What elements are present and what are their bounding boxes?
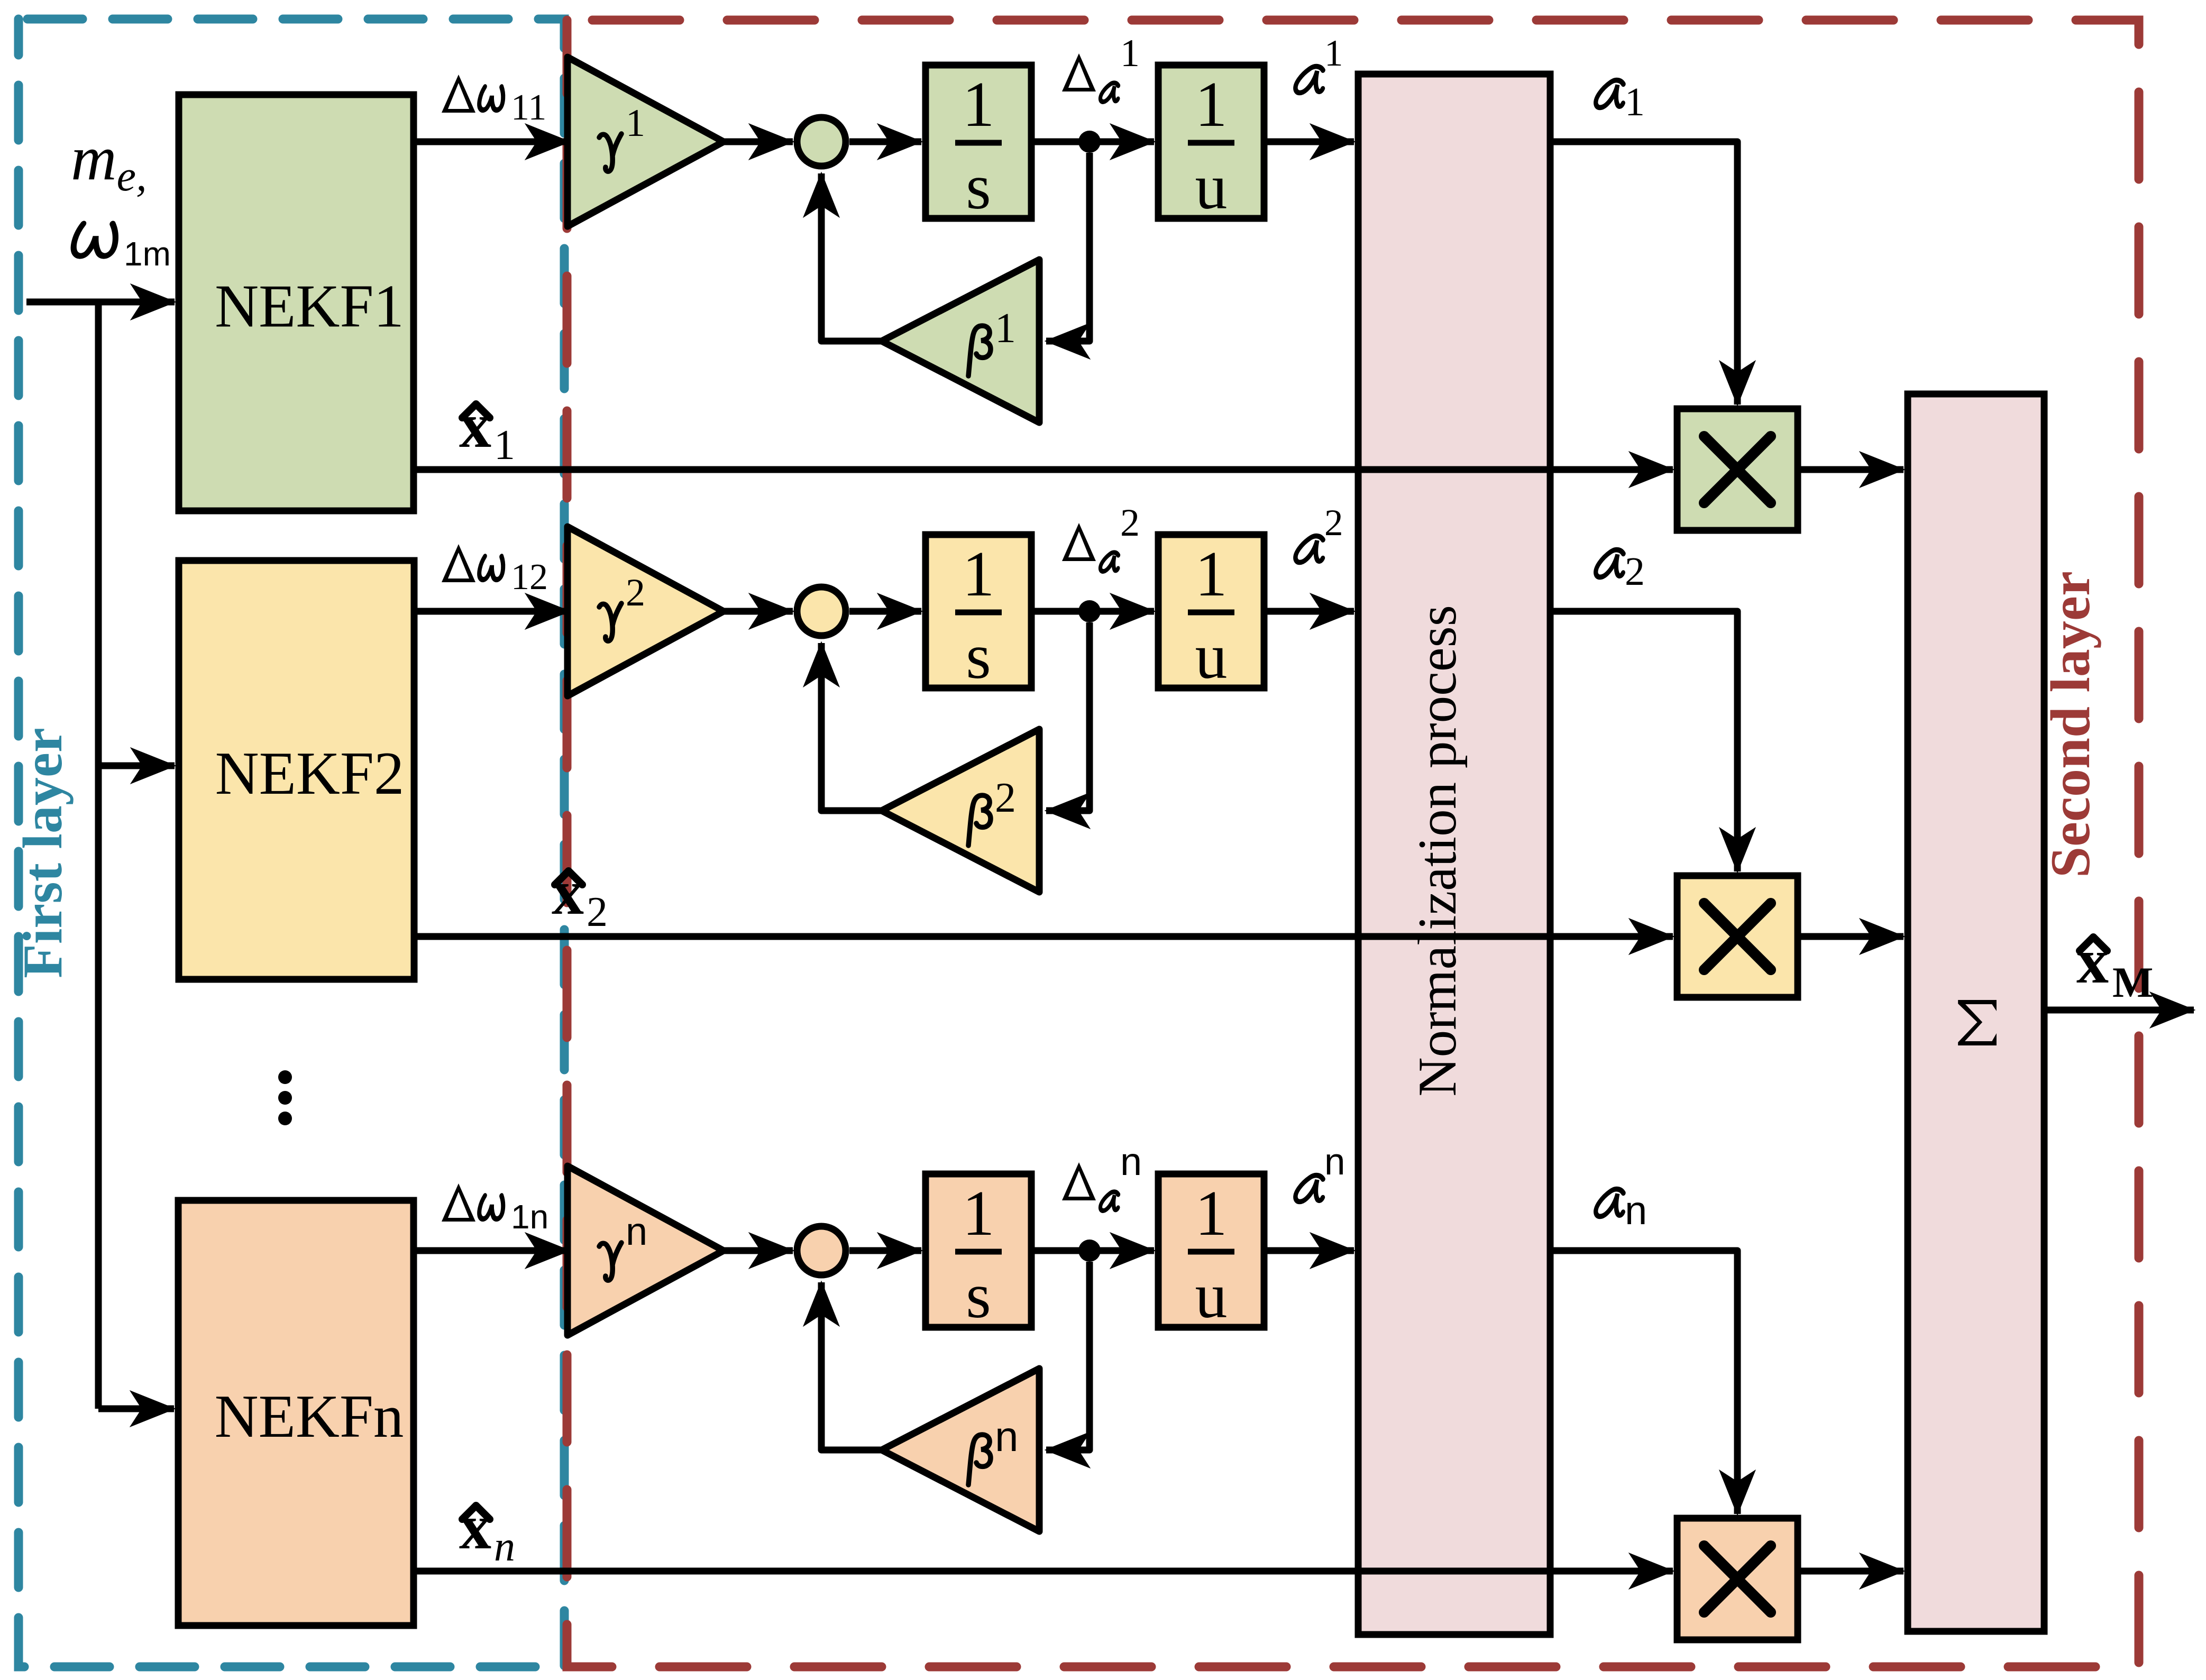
wire gamma to summing node	[724, 139, 793, 145]
svg-text:1: 1	[1195, 538, 1228, 610]
wire Sigma output xM	[2044, 1007, 2194, 1014]
multiplier block 1	[1677, 409, 1798, 530]
wire integrator to 1/u	[1031, 139, 1154, 145]
svg-text:1: 1	[963, 1178, 995, 1249]
svg-text:n: n	[1324, 1141, 1345, 1183]
svg-text:1: 1	[963, 538, 995, 610]
wire integrator to 1/u	[1031, 608, 1154, 615]
wire alpha_2 from Normalization to multiplier 2	[1550, 611, 1737, 871]
svg-text:1: 1	[1625, 80, 1645, 124]
wire input bus vertical	[95, 302, 102, 1409]
integrator block 1/s row 1	[926, 65, 1031, 218]
wire alpha_n from Normalization to multiplier n	[1550, 1251, 1737, 1514]
wire Delta-omega 12 from NEKF2 to gamma gain	[414, 608, 569, 615]
svg-text:1n: 1n	[511, 1198, 548, 1236]
NEKF2 block	[179, 561, 414, 979]
wire 1/u to Normalization	[1264, 1247, 1354, 1254]
svg-text:2: 2	[626, 571, 645, 614]
normalizer gain block 1/u row 1	[1158, 65, 1264, 218]
multiplier block 2	[1677, 876, 1798, 997]
gain triangle gamma 2	[567, 527, 724, 696]
label Delta alpha sup 2	[1062, 523, 1096, 561]
svg-text:2: 2	[1625, 549, 1645, 594]
vertical ellipsis dots	[278, 1070, 292, 1084]
label Delta omega 12	[442, 544, 475, 582]
feedback wire junction to beta 1	[1046, 153, 1090, 341]
svg-text:Second layer: Second layer	[2039, 571, 2101, 878]
svg-text:n: n	[1120, 1140, 1142, 1183]
label alpha sup n	[1295, 1176, 1325, 1202]
gain triangle gamma n	[567, 1166, 724, 1335]
svg-text:n: n	[1625, 1188, 1647, 1233]
label Delta omega 1n	[442, 1183, 475, 1222]
feedback wire beta 2 to summing node	[821, 643, 882, 811]
label Delta alpha sup n	[1062, 1162, 1096, 1200]
Second layer dashed border (red)	[567, 20, 2139, 1667]
junction dot Delta-alpha 2	[1078, 600, 1101, 622]
wire xhat 2 from NEKF2 to multiplier	[414, 933, 1673, 940]
svg-text:1: 1	[995, 305, 1016, 352]
svg-text:1: 1	[963, 69, 995, 140]
svg-text:s: s	[966, 1260, 991, 1332]
wire alpha_1 from Normalization to multiplier 1	[1550, 142, 1737, 405]
svg-text:1: 1	[1324, 33, 1343, 74]
wire xhat 1 from NEKF1 to multiplier	[414, 466, 1673, 473]
summing node circle 2	[797, 587, 846, 636]
svg-text:1: 1	[1195, 69, 1228, 140]
wire 1/u to Normalization	[1264, 608, 1354, 615]
wire xhat n from NEKFn to multiplier	[414, 1568, 1673, 1575]
gain triangle gamma 1	[567, 57, 724, 226]
feedback gain triangle beta 2	[882, 729, 1039, 892]
wire summing node to integrator	[849, 139, 921, 145]
NEKF1 block	[179, 95, 414, 511]
multiplier block n	[1677, 1518, 1798, 1640]
label Delta omega 11	[442, 75, 475, 113]
feedback wire beta n to summing node	[821, 1282, 882, 1450]
svg-text:n: n	[995, 1413, 1019, 1460]
First layer dashed border (teal)	[19, 19, 564, 1667]
label alpha sup 1	[1295, 67, 1325, 93]
wire input to NEKFn	[98, 1406, 174, 1412]
label Delta alpha sup 1	[1062, 53, 1096, 91]
node omega-1m input label	[72, 224, 118, 256]
junction dot Delta-alpha 1	[1078, 131, 1101, 153]
normalizer gain block 1/u row 2	[1158, 535, 1264, 688]
integrator block 1/s row 2	[926, 535, 1031, 688]
wire gamma to summing node	[724, 608, 793, 615]
svg-text:1: 1	[1195, 1178, 1228, 1249]
label alpha_n	[1595, 1189, 1625, 1217]
wire multiplier 2 to Sigma	[1798, 933, 1903, 940]
svg-text:n: n	[494, 1523, 515, 1570]
feedback wire beta 1 to summing node	[821, 173, 882, 341]
junction dot Delta-alpha n	[1078, 1240, 1101, 1262]
svg-text:u: u	[1195, 1260, 1228, 1332]
svg-text:2: 2	[1324, 502, 1343, 544]
label alpha_2	[1595, 550, 1625, 577]
svg-text:n: n	[626, 1209, 647, 1253]
wire multiplier n to Sigma	[1798, 1568, 1903, 1575]
label alpha_1	[1595, 80, 1625, 108]
svg-text:s: s	[966, 151, 991, 223]
svg-text:2: 2	[1120, 501, 1140, 545]
svg-text:s: s	[966, 621, 991, 692]
svg-text:First layer: First layer	[12, 728, 74, 978]
svg-text:2: 2	[995, 775, 1016, 821]
wire integrator to 1/u	[1031, 1247, 1154, 1254]
svg-text:NEKF2: NEKF2	[215, 740, 405, 807]
wire multiplier 1 to Sigma	[1798, 466, 1903, 473]
wire input to NEKF2	[98, 763, 175, 769]
svg-text:1: 1	[1120, 32, 1140, 75]
integrator block 1/s row n	[926, 1174, 1031, 1327]
wire input to NEKF1	[26, 299, 175, 306]
normalizer gain block 1/u row n	[1158, 1174, 1264, 1327]
NEKFn block	[178, 1200, 414, 1626]
svg-text:11: 11	[511, 87, 546, 128]
svg-text:u: u	[1195, 151, 1228, 223]
wire gamma to summing node	[724, 1247, 793, 1254]
svg-text:1m: 1m	[124, 235, 171, 273]
svg-text:1: 1	[494, 422, 515, 469]
feedback wire junction to beta n	[1046, 1262, 1090, 1450]
svg-text:Normalization process: Normalization process	[1407, 605, 1468, 1097]
feedback gain triangle beta 1	[882, 260, 1039, 423]
svg-text:M: M	[2112, 958, 2153, 1006]
feedback wire junction to beta 2	[1046, 622, 1090, 811]
feedback gain triangle beta n	[882, 1369, 1039, 1531]
wire Delta-omega 1n from NEKFn to gamma gain	[414, 1247, 569, 1254]
svg-text:12: 12	[511, 557, 548, 598]
summation Sigma block	[1908, 394, 2044, 1631]
svg-text:2: 2	[587, 889, 608, 935]
svg-text:1: 1	[626, 102, 645, 145]
svg-text:u: u	[1195, 621, 1228, 692]
svg-text:NEKF1: NEKF1	[215, 273, 404, 340]
Sigma label	[1958, 1000, 1997, 1045]
wire 1/u to Normalization	[1264, 139, 1354, 145]
wire summing node to integrator	[849, 608, 921, 615]
svg-text:NEKFn: NEKFn	[215, 1383, 404, 1450]
label alpha sup 2	[1295, 536, 1325, 563]
wire Delta-omega 11 from NEKF1 to gamma gain	[414, 139, 569, 145]
summing node circle n	[797, 1226, 846, 1275]
Normalization process block	[1358, 74, 1550, 1635]
summing node circle 1	[797, 117, 846, 166]
wire summing node to integrator	[849, 1247, 921, 1254]
